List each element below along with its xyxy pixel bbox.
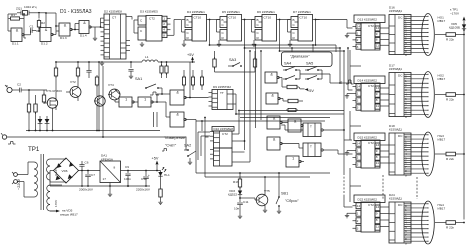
svg-text:CT2: CT2 bbox=[368, 84, 374, 88]
svg-text:SA5: SA5 bbox=[306, 62, 313, 66]
gate cluster wires bbox=[281, 122, 288, 124]
svg-text:2: 2 bbox=[357, 38, 359, 42]
svg-text:C: C bbox=[257, 31, 260, 35]
svg-text:C: C bbox=[222, 23, 225, 27]
svg-text:SB1: SB1 bbox=[281, 192, 288, 196]
IC D10 K155IE8 bbox=[212, 127, 234, 132]
front-end links bbox=[115, 89, 121, 95]
gate D19.2 bbox=[267, 137, 280, 150]
mains plug bbox=[14, 173, 18, 177]
misc verticals near D10 bbox=[204, 130, 206, 160]
svg-text:&: & bbox=[271, 93, 274, 97]
ground stub bbox=[347, 32, 353, 34]
svg-text:К155ИД1: К155ИД1 bbox=[389, 197, 402, 201]
resistor R17 bbox=[287, 85, 297, 88]
svg-text:&: & bbox=[64, 23, 67, 27]
svg-text:3: 3 bbox=[357, 163, 359, 167]
capacitor C1 bbox=[30, 28, 32, 33]
svg-text:ZQ1: ZQ1 bbox=[16, 7, 22, 11]
nixie tube HG1 IV-17 bbox=[422, 14, 435, 56]
svg-text:+5V: +5V bbox=[187, 53, 194, 57]
svg-text:100n: 100n bbox=[124, 177, 131, 181]
primary winding bbox=[34, 162, 38, 169]
svg-text:&: & bbox=[294, 119, 297, 123]
svg-text:ИВ17: ИВ17 bbox=[438, 138, 446, 142]
svg-text:9: 9 bbox=[376, 212, 378, 216]
svg-text:D5 К155ИЕ1: D5 К155ИЕ1 bbox=[222, 10, 240, 14]
core bbox=[40, 154, 42, 210]
gate D19.1 bbox=[267, 116, 280, 129]
resistor R24 bbox=[159, 189, 162, 197]
svg-text:&: & bbox=[16, 28, 19, 32]
svg-text:DC: DC bbox=[398, 74, 403, 78]
svg-text:VD6: VD6 bbox=[62, 169, 68, 173]
svg-text:DC: DC bbox=[398, 134, 403, 138]
svg-text:T: T bbox=[310, 145, 312, 149]
svg-text:C: C bbox=[257, 23, 260, 27]
svg-text:R 22к: R 22к bbox=[446, 157, 455, 161]
svg-text:CT10: CT10 bbox=[194, 16, 202, 20]
svg-text:аноды ИВ17: аноды ИВ17 bbox=[60, 213, 78, 217]
svg-text:C: C bbox=[293, 23, 296, 27]
capacitor C6 bbox=[79, 164, 84, 166]
svg-text:"Диапазон": "Диапазон" bbox=[290, 55, 310, 59]
resistor pair R9 R10 bbox=[160, 66, 163, 73]
+170V rail bbox=[463, 21, 465, 220]
ground under D1.4 bbox=[94, 36, 96, 38]
resistor R16 bbox=[238, 179, 241, 187]
svg-text:14: 14 bbox=[357, 142, 361, 146]
gate D8.3 bbox=[265, 72, 277, 83]
svg-text:2200х16V: 2200х16V bbox=[136, 188, 151, 192]
svg-text:11: 11 bbox=[376, 161, 379, 165]
resistor R18 bbox=[288, 99, 298, 102]
svg-text:К155ИД1: К155ИД1 bbox=[389, 9, 402, 13]
anode resistor bbox=[435, 153, 446, 155]
ground bus left bbox=[26, 130, 160, 132]
left vertical bus bbox=[98, 62, 100, 131]
svg-text:CT10: CT10 bbox=[229, 16, 237, 20]
svg-text:SA2: SA2 bbox=[184, 144, 191, 148]
ground bus psu bbox=[50, 185, 150, 187]
svg-text:CT2: CT2 bbox=[149, 17, 155, 21]
svg-text:HL1: HL1 bbox=[164, 173, 170, 177]
svg-text:&: & bbox=[45, 28, 48, 32]
svg-text:&: & bbox=[273, 116, 276, 120]
svg-text:D15 К155ИЕ2: D15 К155ИЕ2 bbox=[358, 135, 378, 139]
svg-text:SA1: SA1 bbox=[135, 77, 142, 81]
svg-text:14: 14 bbox=[357, 204, 361, 208]
svg-text:9: 9 bbox=[405, 115, 407, 119]
svg-text:ТР1: ТР1 bbox=[28, 146, 40, 153]
ground stub bbox=[347, 212, 353, 214]
svg-text:3: 3 bbox=[357, 226, 359, 230]
resistors R11 R12 R13 bbox=[182, 77, 185, 85]
svg-text:1: 1 bbox=[357, 31, 359, 35]
svg-text:R: R bbox=[187, 36, 190, 40]
capacitor C2 bbox=[19, 88, 21, 93]
FET VT1 bbox=[47, 98, 57, 108]
svg-text:8: 8 bbox=[376, 155, 378, 159]
inverter D21 bbox=[286, 156, 299, 167]
svg-text:12: 12 bbox=[376, 26, 380, 30]
svg-text:8: 8 bbox=[376, 98, 378, 102]
svg-text:&: & bbox=[176, 112, 179, 116]
svg-text:C: C bbox=[222, 31, 225, 35]
wire to SA2 bbox=[7, 136, 186, 138]
svg-text:14: 14 bbox=[357, 85, 361, 89]
svg-text:B: B bbox=[257, 18, 259, 22]
capacitor C11 bbox=[239, 195, 241, 202]
input jack XW1 bbox=[7, 87, 12, 92]
svg-text:&: & bbox=[83, 21, 86, 25]
svg-text:2: 2 bbox=[357, 219, 359, 223]
gate D1.1 bbox=[11, 28, 22, 42]
resistor R14 bbox=[213, 59, 216, 67]
svg-text:К155ИД1: К155ИД1 bbox=[389, 67, 402, 71]
svg-text:8: 8 bbox=[114, 166, 116, 170]
pulse symbol input bbox=[8, 143, 11, 145]
rail arrow bbox=[463, 17, 466, 21]
bus verticals middle bbox=[244, 48, 246, 150]
+5V output bbox=[156, 165, 158, 171]
transistor VT2 bbox=[70, 87, 81, 98]
svg-text:D3 К155ИЕ5: D3 К155ИЕ5 bbox=[140, 10, 158, 14]
svg-text:1024 кГц: 1024 кГц bbox=[24, 5, 37, 9]
svg-text:8: 8 bbox=[376, 218, 378, 222]
svg-text:9: 9 bbox=[405, 173, 407, 177]
diode VD3 bbox=[239, 187, 241, 191]
svg-text:1: 1 bbox=[357, 211, 359, 215]
svg-text:D1.3: D1.3 bbox=[60, 36, 67, 40]
resistor R7 bbox=[76, 68, 79, 76]
nixie tube HG2 IV-17 bbox=[422, 72, 435, 118]
capacitor C7 electrolytic bbox=[87, 171, 89, 175]
nixie tube HG4 IV-17 bbox=[422, 201, 435, 244]
svg-text:R16: R16 bbox=[233, 180, 239, 184]
svg-text:R 22к: R 22к bbox=[446, 98, 455, 102]
SA5 contacts bbox=[307, 69, 309, 71]
svg-text:1: 1 bbox=[144, 97, 146, 101]
oscillator wires bbox=[13, 13, 18, 15]
mid horizontal buses bbox=[240, 110, 344, 112]
svg-text:C9: C9 bbox=[125, 165, 129, 169]
resistor R3 bbox=[27, 104, 30, 112]
decade chain wire bbox=[284, 19, 291, 21]
svg-text:D6 К155ИЕ1: D6 К155ИЕ1 bbox=[257, 10, 275, 14]
svg-text:CT2: CT2 bbox=[222, 132, 228, 136]
ground stub bbox=[347, 93, 353, 95]
resistor R8 bbox=[95, 77, 98, 85]
counter D15 K155IE2 bbox=[354, 133, 385, 141]
bus wires to display section bbox=[210, 44, 337, 46]
svg-text:170V: 170V bbox=[54, 199, 58, 207]
svg-text:ИВ17: ИВ17 bbox=[438, 77, 446, 81]
dashed bus continuation bbox=[343, 173, 345, 195]
svg-text:"Счёт": "Счёт" bbox=[165, 144, 177, 148]
svg-text:CT2: CT2 bbox=[368, 24, 374, 28]
svg-text:CT2: CT2 bbox=[368, 141, 374, 145]
svg-text:D14 К155ИЕ2: D14 К155ИЕ2 bbox=[358, 78, 378, 82]
D2 right pins bbox=[121, 42, 127, 44]
cap C4 to ground bbox=[130, 62, 132, 68]
svg-text:2: 2 bbox=[163, 22, 165, 26]
transistor VT3 bbox=[95, 96, 105, 106]
capacitor C3 bbox=[86, 70, 91, 72]
svg-text:ИВ17: ИВ17 bbox=[438, 207, 446, 211]
svg-text:B: B bbox=[293, 18, 295, 22]
crystal ZQ1 bbox=[23, 11, 28, 16]
inverter 2 bbox=[138, 97, 151, 107]
pulse sym2 bbox=[162, 150, 164, 152]
svg-text:1: 1 bbox=[292, 156, 294, 160]
svg-text:&: & bbox=[273, 137, 276, 141]
svg-text:"Сброс": "Сброс" bbox=[285, 199, 299, 203]
svg-text:T: T bbox=[310, 125, 312, 129]
svg-text:11: 11 bbox=[376, 104, 379, 108]
bridge rectifier VD6 bbox=[65, 158, 67, 159]
svg-text:C: C bbox=[140, 29, 143, 33]
svg-text:9: 9 bbox=[376, 32, 378, 36]
decade chain wire bbox=[214, 19, 221, 21]
flip-flop D23.1 bbox=[303, 123, 321, 137]
D10 wire loops bbox=[197, 132, 199, 160]
svg-text:&: & bbox=[176, 90, 179, 94]
anode resistor bbox=[435, 34, 446, 36]
svg-text:К155ИД1: К155ИД1 bbox=[389, 128, 402, 132]
svg-text:C: C bbox=[293, 31, 296, 35]
svg-text:D1.4: D1.4 bbox=[80, 34, 87, 38]
svg-text:C11: C11 bbox=[243, 200, 249, 204]
svg-text:1: 1 bbox=[357, 92, 359, 96]
transistor VT5 bbox=[256, 194, 268, 206]
svg-text:D1.2: D1.2 bbox=[41, 42, 48, 46]
svg-text:D13 К155ИЕ2: D13 К155ИЕ2 bbox=[358, 17, 378, 21]
svg-text:CT10: CT10 bbox=[264, 16, 272, 20]
transistor VT4 bbox=[109, 89, 120, 100]
svg-text:9: 9 bbox=[405, 53, 407, 57]
LED HL1 bbox=[160, 171, 162, 173]
svg-text:2: 2 bbox=[357, 156, 359, 160]
svg-text:12: 12 bbox=[376, 205, 380, 209]
resistor R19 bbox=[288, 108, 296, 111]
svg-text:B: B bbox=[222, 18, 224, 22]
svg-text:11: 11 bbox=[376, 43, 379, 47]
svg-text:8: 8 bbox=[376, 38, 378, 42]
svg-text:R 22к: R 22к bbox=[446, 38, 455, 42]
svg-text:VT2: VT2 bbox=[70, 80, 76, 84]
svg-text:КД105Б: КД105Б bbox=[449, 26, 460, 30]
input jack XW2 bbox=[2, 135, 6, 139]
bus to reset bbox=[196, 172, 330, 174]
gate D1.4 bbox=[79, 21, 89, 34]
svg-text:1: 1 bbox=[163, 17, 165, 21]
svg-text:9: 9 bbox=[376, 92, 378, 96]
secondary 9-12V bbox=[47, 159, 50, 166]
svg-text:C1: C1 bbox=[30, 25, 34, 29]
inverter 1 bbox=[119, 97, 132, 107]
anode resistor bbox=[435, 222, 446, 224]
svg-text:D1.1: D1.1 bbox=[12, 42, 19, 46]
resistor R1 bbox=[11, 17, 20, 20]
counter D22 K155IE2 bbox=[354, 195, 385, 203]
svg-text:3: 3 bbox=[357, 106, 359, 110]
svg-text:9: 9 bbox=[405, 241, 407, 245]
svg-text:+5V: +5V bbox=[152, 157, 159, 161]
svg-text:D10 К155ИЕ8: D10 К155ИЕ8 bbox=[214, 127, 234, 131]
nixie tube HG3 IV-17 bbox=[422, 132, 435, 176]
svg-text:C: C bbox=[187, 23, 190, 27]
svg-text:C2: C2 bbox=[17, 83, 21, 87]
svg-text:R 22к: R 22к bbox=[446, 226, 455, 230]
svg-text:4: 4 bbox=[163, 28, 165, 32]
pulse symbol bbox=[150, 94, 153, 96]
svg-text:12: 12 bbox=[376, 86, 380, 90]
svg-text:14: 14 bbox=[357, 25, 361, 29]
svg-text:R: R bbox=[222, 36, 225, 40]
svg-text:2000х16V: 2000х16V bbox=[79, 188, 94, 192]
svg-text:TT: TT bbox=[220, 91, 224, 95]
supply stubs mid bbox=[153, 112, 155, 127]
svg-text:C: C bbox=[187, 31, 190, 35]
decade chain wire bbox=[249, 19, 256, 21]
switch SA2 bbox=[187, 149, 189, 151]
svg-text:B: B bbox=[187, 18, 189, 22]
svg-text:SA3: SA3 bbox=[229, 58, 236, 62]
svg-text:D4 К155ИЕ1: D4 К155ИЕ1 bbox=[187, 10, 205, 14]
secondary 170V bbox=[47, 185, 50, 192]
flip-flop D23.2 bbox=[303, 143, 321, 157]
svg-text:VT1 КП303: VT1 КП303 bbox=[46, 89, 62, 93]
svg-text:~220V: ~220V bbox=[17, 178, 21, 190]
diode VD5 bbox=[462, 24, 466, 28]
gate D8.1 bbox=[170, 90, 184, 105]
SA4 contacts bbox=[285, 69, 287, 71]
svg-text:11: 11 bbox=[376, 225, 379, 229]
svg-text:"Измерение": "Измерение" bbox=[164, 136, 187, 140]
svg-text:1: 1 bbox=[357, 149, 359, 153]
svg-text:КД522: КД522 bbox=[228, 193, 237, 197]
svg-text:9: 9 bbox=[376, 149, 378, 153]
svg-text:DC: DC bbox=[398, 203, 403, 207]
svg-text:C10: C10 bbox=[141, 177, 147, 181]
bridge out wires bbox=[79, 170, 101, 172]
resistor R2 bbox=[37, 21, 40, 28]
svg-text:L1: L1 bbox=[145, 55, 149, 59]
resistor R4 bbox=[34, 104, 37, 112]
ground stub bbox=[347, 150, 353, 152]
svg-text:C7: C7 bbox=[91, 173, 95, 177]
gate D1.3 bbox=[59, 23, 70, 36]
svg-text:10н: 10н bbox=[234, 207, 239, 211]
svg-text:VT4: VT4 bbox=[108, 83, 114, 87]
svg-text:D1 - К155ЛА3: D1 - К155ЛА3 bbox=[60, 9, 92, 15]
svg-text:8: 8 bbox=[163, 33, 165, 37]
anode resistor bbox=[435, 94, 446, 96]
svg-text:1: 1 bbox=[125, 97, 127, 101]
+5V rail with inductor L1 bbox=[56, 61, 142, 63]
Diapazon selector box bbox=[282, 52, 333, 67]
svg-text:R1: R1 bbox=[11, 13, 15, 17]
svg-text:D7 К155ИЕ1: D7 К155ИЕ1 bbox=[293, 10, 311, 14]
svg-text:17: 17 bbox=[103, 177, 107, 181]
svg-text:DC: DC bbox=[398, 16, 403, 20]
svg-text:CT2: CT2 bbox=[368, 203, 374, 207]
svg-text:~170V: ~170V bbox=[450, 12, 460, 16]
svg-text:&: & bbox=[270, 72, 273, 76]
svg-text:2: 2 bbox=[357, 99, 359, 103]
svg-text:CT10: CT10 bbox=[300, 16, 308, 20]
feeder verticals bbox=[347, 48, 349, 90]
svg-text:R: R bbox=[257, 36, 260, 40]
svg-text:D9 К155ТМ2: D9 К155ТМ2 bbox=[213, 85, 231, 89]
counter D13 K155IE2 bbox=[354, 15, 385, 23]
carry chain wires bbox=[349, 50, 351, 83]
gate D8.4 bbox=[266, 93, 278, 104]
svg-text:12: 12 bbox=[376, 143, 380, 147]
capacitor C9 bbox=[127, 171, 129, 174]
svg-text:C6: C6 bbox=[85, 161, 89, 165]
counter D14 K155IE2 bbox=[354, 76, 385, 84]
svg-text:R2: R2 bbox=[41, 21, 45, 25]
svg-text:D2 К155ИЕ8: D2 К155ИЕ8 bbox=[104, 10, 122, 14]
gate D8.2 bbox=[170, 112, 184, 127]
gate D1.2 bbox=[40, 28, 51, 42]
resistor R6 drain bbox=[54, 68, 57, 76]
diodes VD1 VD2 bbox=[38, 119, 43, 123]
svg-text:ИВ17: ИВ17 bbox=[438, 19, 446, 23]
resistor R15 bbox=[253, 59, 256, 67]
arrow to anodes bbox=[50, 210, 56, 212]
svg-text:R: R bbox=[293, 36, 296, 40]
svg-text:C: C bbox=[140, 19, 143, 23]
svg-text:3: 3 bbox=[357, 45, 359, 49]
svg-text:+: + bbox=[148, 173, 150, 177]
psu ground symbol bbox=[81, 171, 83, 187]
svg-text:SA4: SA4 bbox=[284, 62, 291, 66]
gate D20.1 bbox=[288, 119, 301, 132]
svg-text:CT: CT bbox=[112, 16, 116, 20]
capacitor C10 electrolytic bbox=[145, 171, 147, 177]
svg-text:D22 К155ИЕ2: D22 К155ИЕ2 bbox=[358, 197, 378, 201]
resistor R5 bbox=[42, 95, 45, 102]
